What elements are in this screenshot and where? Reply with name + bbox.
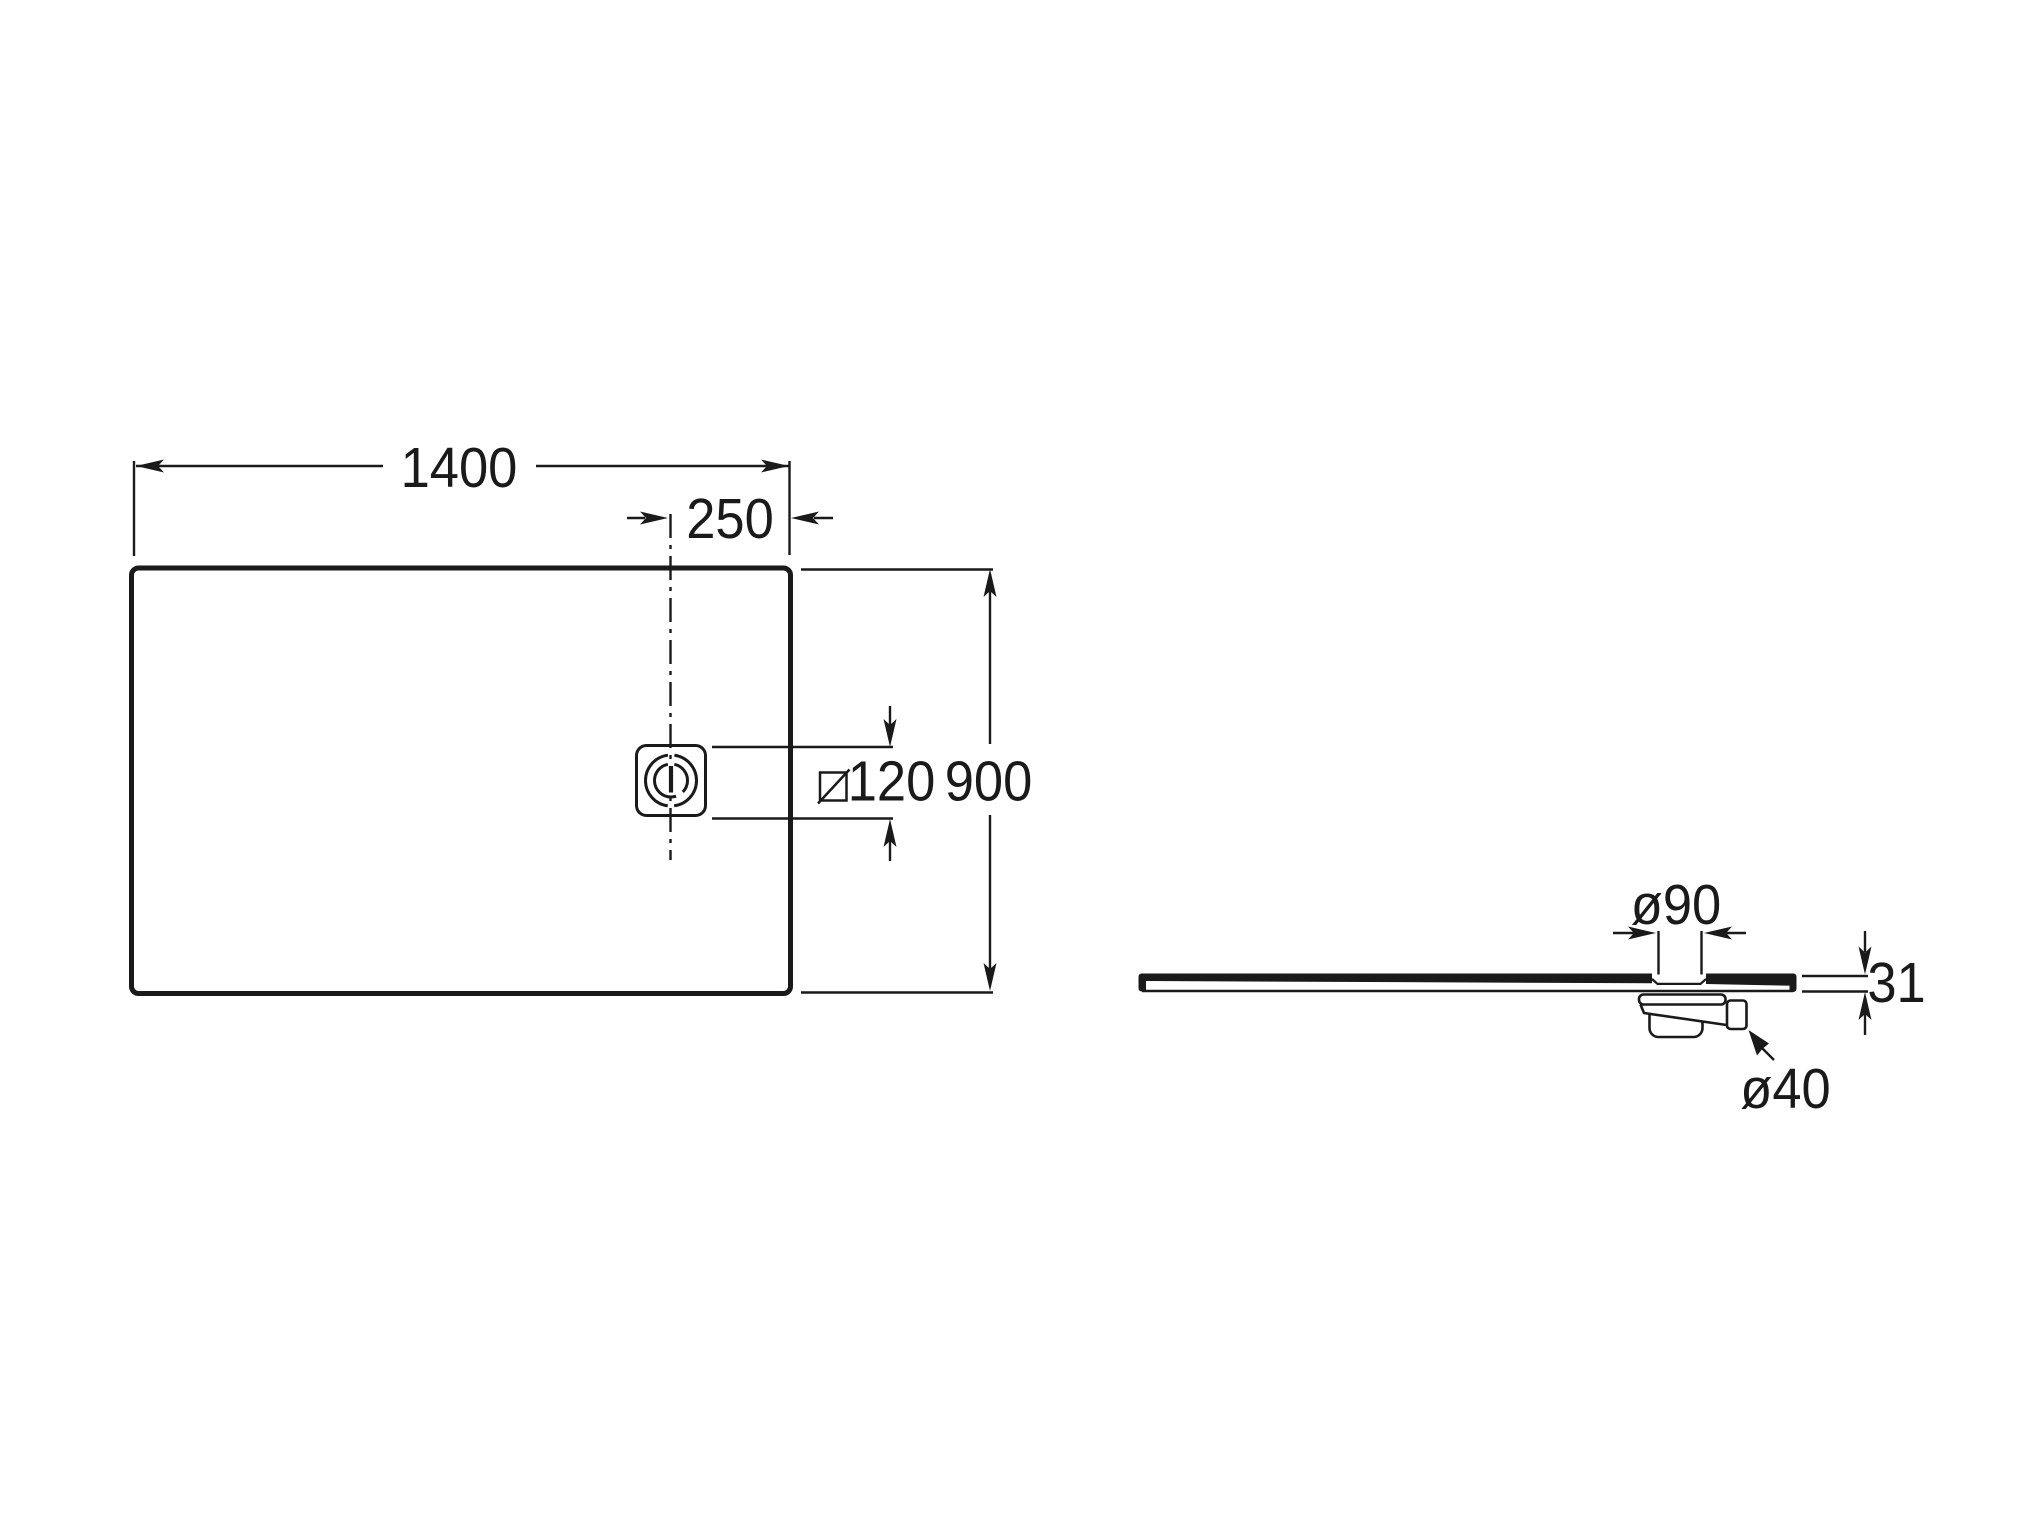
drain trap: outlet pipe: [1727, 1001, 1747, 1030]
extension line bottom (for 120): [712, 817, 893, 819]
extension line top (for 120): [712, 746, 893, 748]
svg-text:120: 120: [848, 749, 936, 813]
dimension 250: right arrow (points left, tip on right extension): [814, 517, 833, 519]
tray profile: drain recess floor: [1652, 979, 1706, 984]
arrow ø90 right (points left): [1725, 932, 1746, 934]
drain trap: cup: [1650, 1006, 1703, 1037]
drain trap: body outline (left edge and sloped bottom): [1641, 1005, 1731, 1026]
svg-text:31: 31: [1867, 950, 1925, 1014]
square-slash symbol for 120: [820, 773, 847, 801]
drain trap: body (white cover polygon): [1640, 1003, 1730, 1026]
svg-text:1400: 1400: [401, 435, 518, 499]
svg-text:ø90: ø90: [1631, 872, 1721, 936]
drain trap: flange: [1639, 995, 1726, 1005]
extension line right (for 1400 and 250): [788, 461, 790, 555]
arrowhead 1400 left: [136, 460, 164, 473]
tray profile: top band left of drain: [1141, 974, 1652, 984]
extension lines for ø90: [1657, 931, 1659, 975]
extension line left (for 1400): [133, 461, 135, 556]
tray profile: bottom line: [1142, 990, 1793, 993]
dimension line 900 (lower segment with down arrow): [989, 815, 991, 986]
drain cover (rounded square): [637, 746, 706, 816]
dimension line 900 (upper segment with up arrow): [989, 574, 991, 744]
svg-text:250: 250: [686, 486, 774, 550]
extension lines for 31: [1802, 975, 1868, 977]
svg-text:ø40: ø40: [1740, 1056, 1830, 1120]
arrow 31 bottom (points up): [1864, 1014, 1866, 1035]
extension line bottom-right (for 900): [801, 991, 993, 993]
tray profile: left end cap: [1139, 974, 1147, 992]
drain centerline (dash-dot vertical): [669, 514, 671, 860]
arrow 120 top (points down): [889, 706, 891, 725]
drain center bar: [669, 766, 673, 793]
dimension line 1400 (left segment): [136, 465, 383, 467]
arrow 31 top (points down): [1864, 931, 1866, 952]
tray profile: top band right of drain: [1706, 974, 1794, 986]
leader arrow ø40 (points up-left to outlet): [1760, 1046, 1774, 1060]
extension line top-right (for 900): [801, 568, 993, 570]
arrowhead 1400 right: [761, 460, 789, 473]
tray profile: right end cap: [1790, 974, 1797, 993]
arrow ø90 left (points right): [1613, 932, 1634, 934]
dimension 250: left arrow (points right, tip on centerline): [627, 517, 645, 519]
drain outer circle (broken at top and bottom): [646, 755, 697, 806]
drain inner circle (broken at top and lower right): [655, 764, 688, 797]
dimension line 1400 (right segment): [536, 465, 789, 467]
arrow 120 bottom (points up): [889, 841, 891, 861]
svg-text:900: 900: [945, 749, 1033, 813]
shower tray outline (plan view rectangle): [132, 568, 791, 994]
